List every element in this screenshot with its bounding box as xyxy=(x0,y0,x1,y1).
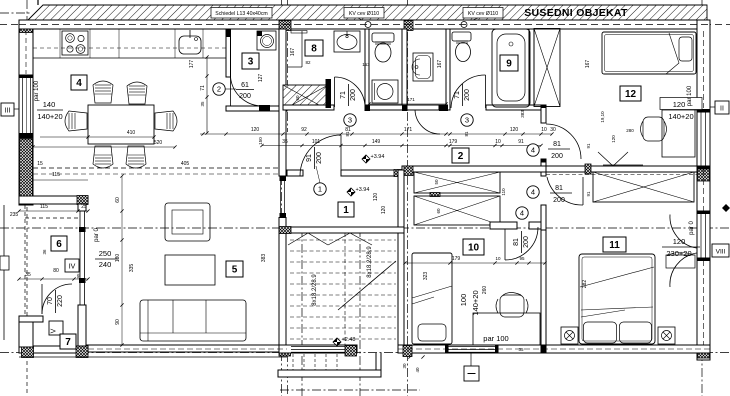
neighbour building hatched strip xyxy=(28,5,707,20)
dimension chain corridor lower xyxy=(262,145,541,147)
lower flight steps xyxy=(292,354,294,370)
svg-text:1: 1 xyxy=(318,185,322,194)
chair room 10 xyxy=(500,295,524,317)
wall room10 door header xyxy=(490,222,517,229)
svg-text:Schiedel L13 40x40cm: Schiedel L13 40x40cm xyxy=(215,11,268,17)
triangle mark room 12 xyxy=(598,152,628,166)
svg-text:4: 4 xyxy=(531,188,535,197)
grid line vertical center B xyxy=(407,0,409,396)
svg-text:235: 235 xyxy=(10,212,19,218)
pier bottom room7 right xyxy=(76,346,88,358)
shower nook room8 xyxy=(301,31,303,67)
svg-text:405: 405 xyxy=(181,161,190,167)
wall bathrooms bottom mid segment xyxy=(366,105,439,110)
svg-text:140+20: 140+20 xyxy=(37,112,62,121)
door arc room 7 xyxy=(42,284,72,314)
dresser room 11 xyxy=(666,255,695,268)
balcony left edge xyxy=(3,205,5,340)
svg-text:III: III xyxy=(5,108,11,115)
svg-text:410: 410 xyxy=(127,130,136,136)
door VIII in right wall xyxy=(700,214,702,259)
svg-text:140: 140 xyxy=(43,100,56,109)
window I marker xyxy=(464,366,479,381)
pier stairs top left xyxy=(279,227,291,234)
svg-text:90: 90 xyxy=(115,319,121,325)
door arc VIII room 11 lower xyxy=(670,253,697,287)
wall exterior right xyxy=(697,20,710,360)
wall exterior left xyxy=(19,20,33,205)
jamb passage top xyxy=(280,177,287,182)
grid line vertical right xyxy=(701,0,703,396)
wall bath9 bottom right segment xyxy=(486,105,546,110)
wall bottom living room xyxy=(78,345,291,352)
divider dining-living dashed xyxy=(33,167,279,169)
washer room 3 xyxy=(257,31,276,50)
window I in bottom wall xyxy=(448,346,495,353)
grid line horizontal middle xyxy=(0,227,730,229)
svg-text:149: 149 xyxy=(372,139,381,145)
room box 12 xyxy=(620,86,641,101)
blanket fold room 10 xyxy=(412,286,452,298)
room box 5 xyxy=(226,261,243,277)
wall room7 top xyxy=(19,316,43,322)
svg-text:19,10: 19,10 xyxy=(600,111,605,123)
dashed line under divider xyxy=(546,174,697,176)
door arc wc middle xyxy=(415,110,440,134)
nightstand room 11 right xyxy=(658,327,675,344)
desk room 10 xyxy=(473,313,540,345)
label KV pipe 2 xyxy=(463,8,503,19)
shaft with X near corridor xyxy=(283,85,328,110)
room box 6 xyxy=(51,236,67,251)
svg-text:140+20: 140+20 xyxy=(668,112,693,121)
svg-text:60: 60 xyxy=(295,95,300,101)
sink room 8 xyxy=(334,31,360,52)
svg-text:171: 171 xyxy=(404,127,413,133)
grid line vertical center A xyxy=(281,0,283,396)
pier right middle xyxy=(698,169,710,181)
pier left top xyxy=(20,21,33,33)
svg-text:60: 60 xyxy=(115,197,121,203)
radiator room 8 xyxy=(291,31,307,34)
dining chair left xyxy=(65,111,87,131)
room box 7 xyxy=(60,334,76,349)
pier right bottom xyxy=(698,346,710,358)
door circle 3 bath8 xyxy=(344,114,356,126)
room box 3 xyxy=(242,53,259,69)
svg-text:+2.48: +2.48 xyxy=(342,337,356,343)
pier room1 top xyxy=(394,170,403,177)
svg-text:127: 127 xyxy=(258,74,264,83)
svg-text:4: 4 xyxy=(520,209,524,218)
dimension chain kitchen vertical xyxy=(206,57,208,133)
svg-text:par 0: par 0 xyxy=(94,228,100,242)
door arc room 12 xyxy=(546,124,581,159)
svg-text:82: 82 xyxy=(305,60,311,65)
svg-text:35: 35 xyxy=(518,347,524,352)
svg-text:35: 35 xyxy=(282,139,288,145)
svg-text:par 100: par 100 xyxy=(34,80,40,101)
svg-text:110: 110 xyxy=(501,188,506,196)
stove xyxy=(62,31,88,55)
door arc room 11 entry xyxy=(547,177,583,205)
svg-text:11: 11 xyxy=(609,240,620,251)
passage lines hall-living xyxy=(280,181,282,213)
pillow room 11 right xyxy=(620,322,652,343)
svg-text:8: 8 xyxy=(311,44,317,55)
door circle 4 room11 xyxy=(527,186,539,198)
dashed centerline top wall xyxy=(19,24,710,26)
elevation +2.48 xyxy=(333,337,355,346)
svg-text:200: 200 xyxy=(239,93,251,100)
svg-text:260: 260 xyxy=(482,286,488,295)
svg-text:par 100: par 100 xyxy=(483,334,508,343)
elevation +3.94 hall xyxy=(347,187,369,196)
svg-text:91: 91 xyxy=(586,191,591,197)
window IV marker xyxy=(65,259,79,272)
room box 11 xyxy=(603,237,626,252)
room box 4 xyxy=(71,75,87,90)
svg-text:50: 50 xyxy=(434,179,439,185)
dining chair bottom 1 xyxy=(93,146,113,168)
svg-text:282: 282 xyxy=(582,280,588,289)
pier top chimney B xyxy=(404,21,413,31)
wall room7 left xyxy=(19,316,33,347)
room box 1 xyxy=(338,202,354,217)
svg-text:167: 167 xyxy=(585,60,591,69)
svg-text:KV cev Ø110: KV cev Ø110 xyxy=(468,11,498,17)
kitchen counter xyxy=(33,57,226,59)
svg-text:200: 200 xyxy=(551,153,563,160)
svg-text:40: 40 xyxy=(415,367,420,373)
svg-text:95: 95 xyxy=(76,273,81,279)
dimension chain wc top xyxy=(369,103,446,105)
svg-text:71: 71 xyxy=(200,85,206,91)
svg-text:120: 120 xyxy=(373,193,379,202)
svg-text:171: 171 xyxy=(407,97,415,102)
svg-text:par 0: par 0 xyxy=(689,221,695,235)
svg-text:167: 167 xyxy=(290,48,296,57)
wall bath9 left vertical xyxy=(446,29,450,110)
svg-text:91: 91 xyxy=(306,154,313,162)
svg-text:200: 200 xyxy=(523,236,530,248)
grid line bottom stairs xyxy=(280,389,420,391)
jamb black wall wc left bottom xyxy=(365,105,371,112)
wall room6-living vertical xyxy=(78,204,86,211)
door circle 3 bath9 xyxy=(461,114,473,126)
svg-text:II: II xyxy=(720,106,724,113)
terrace edge line bottom left xyxy=(19,356,287,358)
bed room 12 xyxy=(602,32,696,74)
svg-text:3: 3 xyxy=(348,116,352,125)
room box 10 xyxy=(463,239,484,255)
shelf line room 12 xyxy=(603,164,643,166)
tick top left xyxy=(37,0,39,5)
svg-text:120: 120 xyxy=(611,135,616,143)
chair room 12 xyxy=(643,117,664,141)
svg-text:177: 177 xyxy=(189,60,195,69)
svg-text:5: 5 xyxy=(232,265,238,276)
coffee table living xyxy=(165,255,215,285)
svg-text:10: 10 xyxy=(495,256,501,261)
svg-text:200: 200 xyxy=(464,89,471,101)
wall exterior top xyxy=(19,20,710,29)
wall stairs south xyxy=(279,345,357,353)
svg-text:120: 120 xyxy=(381,206,387,215)
sink wc xyxy=(413,53,433,81)
svg-text:80: 80 xyxy=(53,268,59,274)
wall room7 right vertical xyxy=(78,305,86,346)
wall rooms 12-11 divider xyxy=(546,166,697,172)
wall room6 top horizontal xyxy=(19,196,88,204)
svg-text:71: 71 xyxy=(340,91,347,99)
pier room6 wall xyxy=(77,196,88,205)
grid line horizontal top xyxy=(0,24,730,26)
pillow room 11 left xyxy=(584,322,617,343)
svg-text:81: 81 xyxy=(553,141,561,148)
svg-text:91: 91 xyxy=(586,143,591,149)
pillow room 10 xyxy=(418,324,446,341)
wall bottom right section xyxy=(398,345,710,353)
door circle 4 room12 xyxy=(527,144,539,156)
stair flight line vertical xyxy=(344,233,346,345)
svg-text:2: 2 xyxy=(458,151,464,162)
window II marker xyxy=(715,101,729,114)
svg-text:9: 9 xyxy=(506,59,512,70)
stair diagonal rail xyxy=(338,261,396,310)
svg-text:3: 3 xyxy=(248,57,254,68)
svg-text:120: 120 xyxy=(251,127,260,133)
svg-text:383: 383 xyxy=(520,110,525,118)
grid line horizontal bottom xyxy=(0,352,730,354)
door arc apartment entrance 1 xyxy=(300,135,341,176)
door circle 4 room10 xyxy=(516,207,528,219)
blanket fold room 12 xyxy=(666,33,679,74)
svg-text:V: V xyxy=(51,328,58,333)
pier stairs south xyxy=(345,346,357,357)
jamb black bath9 door xyxy=(439,105,448,112)
desk room 12 xyxy=(662,107,695,157)
door arc bath 9 xyxy=(451,75,486,108)
svg-text:81: 81 xyxy=(464,131,469,137)
elevation +3.94 corridor xyxy=(362,154,384,163)
svg-text:95: 95 xyxy=(519,256,525,261)
svg-text:115: 115 xyxy=(52,172,60,178)
svg-text:4: 4 xyxy=(76,78,82,89)
dining chair top 1 xyxy=(93,81,113,103)
dining chair right xyxy=(155,111,177,131)
pier left lower xyxy=(20,139,33,204)
nightstand room 11 left xyxy=(561,327,578,344)
svg-text:179: 179 xyxy=(449,139,458,145)
svg-text:81: 81 xyxy=(513,238,520,246)
svg-text:200: 200 xyxy=(316,152,323,164)
room box 9 xyxy=(500,55,518,71)
wall bath8 right vertical xyxy=(365,29,369,110)
balcony planter xyxy=(0,256,9,270)
svg-text:323: 323 xyxy=(423,272,429,281)
dining chair bottom 2 xyxy=(126,146,146,168)
pier corridor-room10 xyxy=(404,166,413,176)
svg-text:1: 1 xyxy=(343,205,349,216)
window stairs south xyxy=(291,346,345,353)
svg-text:3: 3 xyxy=(465,116,469,125)
balcony door IV xyxy=(79,211,81,307)
svg-text:8x18.2/28.9: 8x18.2/28.9 xyxy=(312,274,318,306)
wall room1 bottom / stairs top xyxy=(279,227,404,233)
jamb passage bottom xyxy=(280,213,287,218)
dashed centerline right wall xyxy=(703,31,705,108)
svg-text:+3.94: +3.94 xyxy=(356,187,370,193)
svg-text:VIII: VIII xyxy=(716,249,726,256)
wall room1 top xyxy=(287,170,303,176)
svg-text:101: 101 xyxy=(312,139,321,145)
svg-text:61: 61 xyxy=(241,82,249,89)
window VIII marker xyxy=(712,244,729,257)
svg-text:91: 91 xyxy=(518,139,524,145)
jamb black room3 bottom xyxy=(259,105,270,111)
KV pipe circle 1 xyxy=(365,22,371,28)
svg-text:335: 335 xyxy=(129,264,135,273)
dining table xyxy=(88,105,154,144)
svg-text:100: 100 xyxy=(459,294,468,307)
svg-text:8x18.2/28.9: 8x18.2/28.9 xyxy=(367,246,373,278)
svg-text:115: 115 xyxy=(40,204,48,210)
second dashed corridor line xyxy=(33,173,279,175)
svg-text:200: 200 xyxy=(350,89,357,101)
pier bottom A xyxy=(403,346,412,357)
sofa living xyxy=(140,300,246,341)
wall rooms 10-11 divider vertical xyxy=(541,230,546,345)
kitchen sink xyxy=(179,36,201,54)
dimension chain room10 top xyxy=(405,262,545,264)
room box 2 xyxy=(452,148,469,163)
window V marker xyxy=(49,321,63,335)
svg-text:520: 520 xyxy=(154,140,163,146)
door arc bath 8 xyxy=(335,77,366,108)
wall room1 right vertical xyxy=(398,170,404,232)
armchair living xyxy=(165,203,210,241)
KV pipe circle 2 xyxy=(461,22,467,28)
wardrobe closet X upper xyxy=(414,172,500,193)
pier bottom room7 left xyxy=(22,346,34,358)
grid line vertical left xyxy=(26,0,28,200)
washer wc xyxy=(372,80,398,103)
toilet room 9 xyxy=(452,32,471,41)
balcony dashed outline xyxy=(24,205,26,345)
grid line vertical stairs xyxy=(301,228,303,396)
door arc VIII room 11 upper xyxy=(670,215,697,249)
svg-text:SUSEDNI OBJEKAT: SUSEDNI OBJEKAT xyxy=(524,7,628,19)
svg-text:30: 30 xyxy=(550,127,556,133)
svg-text:150: 150 xyxy=(258,137,263,145)
bed room 11 xyxy=(579,254,655,344)
svg-text:120: 120 xyxy=(510,127,519,133)
svg-text:71: 71 xyxy=(454,91,461,99)
wall stairs left vertical xyxy=(279,218,286,346)
svg-text:30: 30 xyxy=(402,363,407,369)
wall central spine upper xyxy=(279,29,286,176)
pier bottom living right xyxy=(279,346,291,357)
jamb black wall wc right bottom xyxy=(402,105,408,112)
pier top chimney A xyxy=(279,21,291,31)
pillow room 12 xyxy=(679,37,692,61)
grid line vertical stairs right xyxy=(359,228,361,396)
wall wc right vertical xyxy=(402,29,407,110)
wall kitchen-room3 vertical xyxy=(226,29,231,77)
window label right 120 (room12) xyxy=(660,98,702,110)
door arc room 3 xyxy=(231,77,263,106)
stair landing connector xyxy=(375,353,377,370)
pier divider 12-11 xyxy=(585,164,591,174)
grid stub top left xyxy=(0,12,30,14)
svg-text:2: 2 xyxy=(217,85,221,94)
svg-text:15: 15 xyxy=(37,161,43,167)
svg-text:4: 4 xyxy=(531,146,535,155)
svg-text:IV: IV xyxy=(69,264,76,271)
wall room3 bottom xyxy=(226,106,287,111)
wardrobe closet X lower xyxy=(414,196,500,225)
svg-text:25: 25 xyxy=(81,204,87,210)
stair steps dashed xyxy=(290,239,396,241)
bed room 10 xyxy=(412,253,452,344)
svg-text:250: 250 xyxy=(99,249,112,258)
svg-text:179: 179 xyxy=(452,256,461,262)
svg-text:120: 120 xyxy=(673,237,686,246)
window III in left wall xyxy=(22,78,24,133)
dining chair top 2 xyxy=(127,82,147,104)
door arc room 10 xyxy=(505,227,538,260)
svg-text:120: 120 xyxy=(673,100,686,109)
svg-text:60: 60 xyxy=(436,208,441,214)
svg-text:7: 7 xyxy=(65,337,71,348)
svg-text:92: 92 xyxy=(301,127,307,133)
wall corridor-room10 horizontal xyxy=(402,166,546,172)
svg-text:230+20: 230+20 xyxy=(666,249,691,258)
diamond marker right edge xyxy=(722,204,730,212)
wardrobe X room 12 xyxy=(534,29,560,107)
room box 8 xyxy=(305,40,323,56)
window III marker xyxy=(1,103,14,116)
svg-text:180: 180 xyxy=(115,254,121,263)
bathtub room 9 xyxy=(492,29,530,107)
toilet wc top xyxy=(372,33,394,42)
label KV pipe 1 xyxy=(344,8,384,19)
svg-text:10: 10 xyxy=(541,127,547,133)
door circle 2 xyxy=(213,83,225,95)
svg-text:36: 36 xyxy=(42,249,47,255)
svg-text:81: 81 xyxy=(555,185,563,192)
svg-text:par 100: par 100 xyxy=(687,85,693,106)
dimension chain living vertical xyxy=(121,176,123,345)
svg-text:81: 81 xyxy=(345,131,350,137)
window II in right wall xyxy=(700,112,702,168)
svg-text:140+20: 140+20 xyxy=(471,290,480,315)
svg-text:10: 10 xyxy=(495,139,501,145)
wall corridor right vertical xyxy=(541,106,546,123)
svg-text:200: 200 xyxy=(553,197,565,204)
svg-text:12: 12 xyxy=(625,89,637,100)
dimension chain room7 xyxy=(19,278,88,280)
svg-text:+3.94: +3.94 xyxy=(371,154,385,160)
door circle 1 xyxy=(314,183,326,195)
wall room12 left vertical xyxy=(529,29,534,108)
grid line vertical center A2 xyxy=(287,0,289,132)
svg-text:167: 167 xyxy=(437,60,443,69)
svg-text:6: 6 xyxy=(56,239,62,250)
wall black bar left of bath8 door xyxy=(326,79,332,108)
svg-text:10: 10 xyxy=(468,243,480,254)
